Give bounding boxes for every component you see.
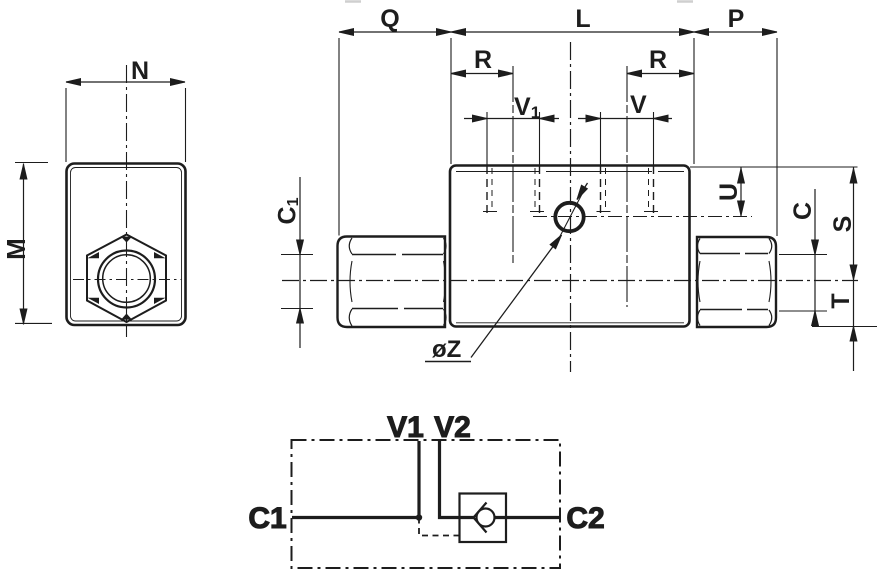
svg-text:S: S [829, 216, 857, 233]
svg-text:R: R [474, 46, 492, 74]
svg-text:V2: V2 [434, 411, 471, 444]
svg-text:C2: C2 [566, 502, 604, 535]
svg-text:N: N [131, 57, 149, 85]
svg-text:V1: V1 [387, 411, 424, 444]
svg-text:M: M [1, 238, 31, 260]
svg-text:øZ: øZ [432, 336, 461, 363]
svg-text:U: U [715, 183, 743, 201]
svg-text:V1: V1 [514, 93, 540, 122]
svg-text:L: L [575, 5, 590, 33]
svg-text:V: V [630, 91, 647, 119]
svg-text:C1: C1 [248, 502, 286, 535]
svg-text:C: C [789, 202, 817, 220]
svg-text:R: R [649, 46, 667, 74]
svg-text:C1: C1 [274, 197, 303, 224]
svg-text:Q: Q [380, 5, 399, 33]
svg-text:T: T [827, 293, 855, 308]
svg-text:P: P [728, 5, 745, 33]
